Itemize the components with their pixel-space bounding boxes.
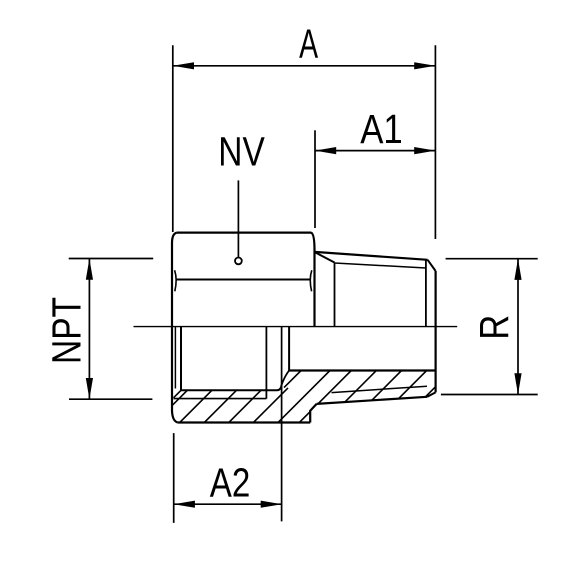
dimension A1 arrow right xyxy=(414,147,435,154)
svg-text:NV: NV xyxy=(218,129,265,175)
dimension NPT line xyxy=(88,259,90,400)
section bottom-left corner xyxy=(172,411,178,423)
dimension A2 arrow left xyxy=(174,501,195,508)
female thread inner thin vertical xyxy=(174,327,176,389)
dimension R arrow bottom xyxy=(514,373,521,394)
dimension A extension right xyxy=(434,45,436,239)
dimension A1 extension left xyxy=(314,130,316,228)
svg-text:A: A xyxy=(299,20,318,66)
section bottom edge xyxy=(178,421,310,423)
dimension A2 extension left xyxy=(173,433,175,523)
female entrance chamfer xyxy=(174,390,182,398)
hex chamfer arc right xyxy=(310,270,312,291)
svg-text:A1: A1 xyxy=(360,106,403,152)
svg-text:A2: A2 xyxy=(210,459,251,505)
male thread chamfer top-left xyxy=(315,252,335,262)
dimension A1 arrow left xyxy=(315,147,336,154)
dimension NPT arrow top xyxy=(86,259,93,280)
dimension A2 line xyxy=(174,503,282,505)
dimension A arrow right xyxy=(414,62,435,69)
female thread major line xyxy=(174,398,267,400)
hatching female side xyxy=(153,360,336,425)
male bore line xyxy=(289,369,436,371)
dimension R extension top xyxy=(446,258,538,260)
hex top-left corner xyxy=(172,233,177,243)
dimension NPT arrow bottom xyxy=(86,378,93,399)
dimension A extension left xyxy=(172,45,174,232)
svg-text:NPT: NPT xyxy=(44,297,90,364)
female thread runout vertical / A2 extension line xyxy=(281,327,283,522)
male end chamfer top-right xyxy=(428,260,436,271)
dimension A1 line xyxy=(315,150,435,152)
dimension NPT extension top xyxy=(69,258,154,260)
section step at hex end xyxy=(310,404,316,423)
dimension R extension bottom xyxy=(441,394,538,396)
female bore bottom line xyxy=(181,385,282,390)
white fill: female thread bore xyxy=(181,327,282,391)
male thread root line top xyxy=(335,263,426,268)
male bore start vertical xyxy=(288,327,290,371)
male thread crest line top xyxy=(315,252,428,260)
female bore left vertical xyxy=(180,327,182,391)
dimension R line xyxy=(517,259,519,395)
female thread end vertical xyxy=(265,327,267,399)
hex chamfer flat line xyxy=(177,279,310,281)
dimension A2 arrow right xyxy=(261,501,282,508)
dimension A arrow left xyxy=(173,62,194,69)
hex chamfer arc left xyxy=(175,270,177,291)
male end chamfer bottom-right xyxy=(427,392,436,396)
hex body left edge xyxy=(171,243,173,411)
dimension NPT extension bottom xyxy=(69,398,152,400)
male thread root line bottom xyxy=(332,386,428,392)
male thread start vertical xyxy=(334,263,336,327)
hatching male side xyxy=(284,365,457,425)
male thread end vertical xyxy=(425,260,427,326)
NV leader line xyxy=(237,180,239,257)
white fill: female thread entrance strip xyxy=(172,327,181,398)
hex body right edge xyxy=(313,250,315,327)
svg-text:R: R xyxy=(471,315,517,340)
dimension R arrow top xyxy=(514,259,521,280)
centerline xyxy=(134,326,458,328)
white fill: male bore xyxy=(282,327,436,386)
hex body top edge xyxy=(177,232,311,234)
male thread crest line bottom xyxy=(317,397,427,404)
hex top-right corner xyxy=(311,233,315,250)
dimension A line xyxy=(173,65,436,67)
bore transition curve xyxy=(282,371,290,386)
NV leader dot xyxy=(235,258,242,265)
right end face xyxy=(435,271,437,392)
